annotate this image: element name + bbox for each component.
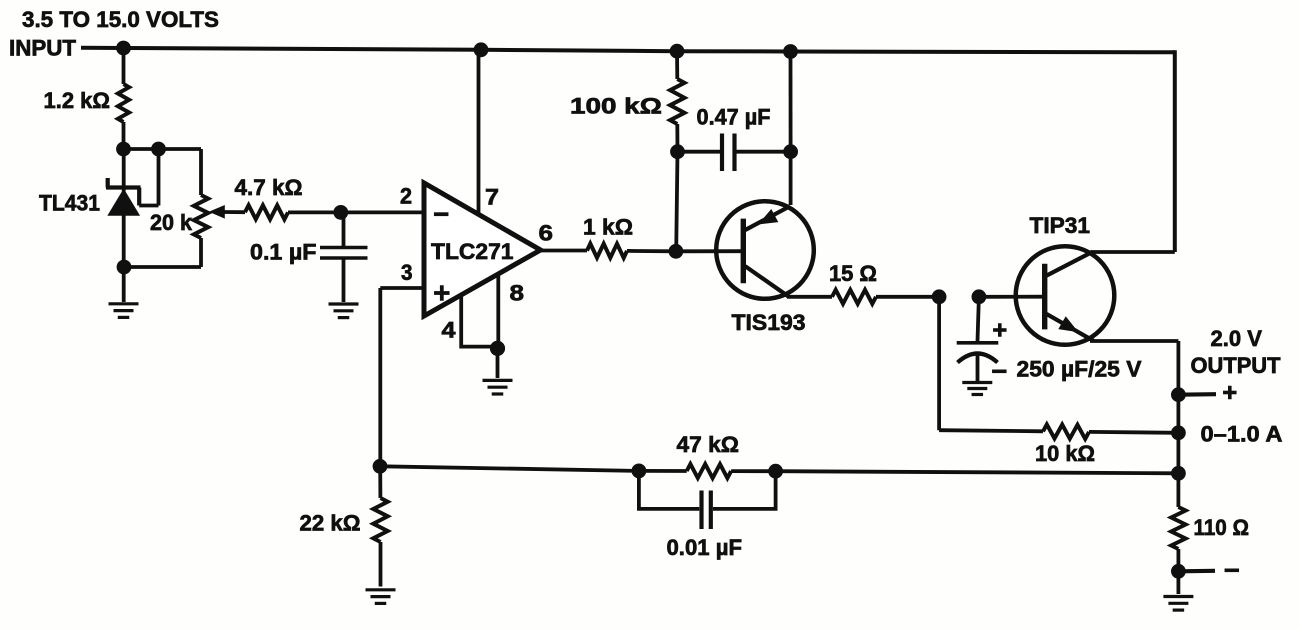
svg-text:0.1 µF: 0.1 µF [250,240,317,265]
svg-text:22 kΩ: 22 kΩ [300,511,361,536]
svg-text:15 Ω: 15 Ω [829,261,877,286]
svg-text:4: 4 [442,318,457,343]
svg-text:100 kΩ: 100 kΩ [570,94,662,119]
svg-text:1.2 kΩ: 1.2 kΩ [44,88,111,113]
svg-text:OUTPUT: OUTPUT [1191,353,1282,378]
svg-text:47 kΩ: 47 kΩ [677,432,740,457]
svg-text:250 µF/25 V: 250 µF/25 V [1017,357,1142,382]
svg-text:3: 3 [401,260,413,285]
svg-text:TIS193: TIS193 [732,310,806,335]
svg-text:2: 2 [400,184,412,209]
svg-text:0–1.0 A: 0–1.0 A [1201,422,1283,447]
svg-text:4.7 kΩ: 4.7 kΩ [235,175,303,200]
svg-text:8: 8 [510,281,525,306]
svg-text:7: 7 [485,185,499,210]
svg-text:3.5 TO 15.0 VOLTS: 3.5 TO 15.0 VOLTS [22,7,219,32]
svg-text:0.01 µF: 0.01 µF [667,535,743,560]
svg-text:0.47 µF: 0.47 µF [697,105,771,130]
svg-text:TL431: TL431 [39,191,100,216]
svg-text:TLC271: TLC271 [431,239,514,264]
svg-text:110 Ω: 110 Ω [1194,515,1250,540]
svg-text:10 kΩ: 10 kΩ [1035,441,1095,466]
svg-text:2.0 V: 2.0 V [1211,326,1263,351]
svg-text:INPUT: INPUT [9,36,77,61]
svg-text:20 k: 20 k [150,210,193,235]
svg-text:TIP31: TIP31 [1030,213,1091,238]
svg-text:1 kΩ: 1 kΩ [583,215,633,240]
svg-text:6: 6 [539,221,554,246]
